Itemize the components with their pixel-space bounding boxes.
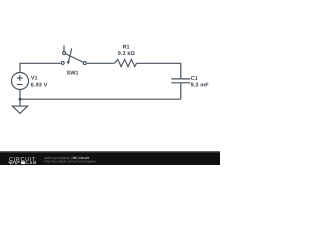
wire switch to resistor xyxy=(87,62,115,64)
switch pin circle top throw xyxy=(63,52,66,55)
svg-text:9.3 mF: 9.3 mF xyxy=(191,83,210,89)
switch SW1 xyxy=(61,45,86,64)
switch lever xyxy=(65,54,83,63)
watermark banner xyxy=(0,153,220,165)
voltage source V1 xyxy=(12,73,29,90)
junction dot xyxy=(19,98,22,101)
switch actuator arrow xyxy=(69,48,72,61)
wire V1 bottom to junction xyxy=(19,89,21,99)
switch top throw stub xyxy=(63,45,65,51)
svg-text:R1: R1 xyxy=(123,45,130,51)
resistor R1 xyxy=(115,59,137,66)
switch pin circle left xyxy=(61,61,64,64)
wire bottom xyxy=(20,98,181,100)
svg-text:SW1: SW1 xyxy=(67,71,79,77)
logo waveform xyxy=(8,162,20,164)
logo LAB block xyxy=(21,161,25,164)
ground xyxy=(12,99,27,113)
svg-text:C1: C1 xyxy=(191,76,198,82)
wire capacitor bottom lead xyxy=(180,83,182,99)
switch pin circle right common xyxy=(83,62,86,65)
svg-text:V1: V1 xyxy=(31,75,38,81)
wire resistor to top-right corner down to capacitor xyxy=(137,63,181,78)
capacitor C1 xyxy=(171,79,190,83)
svg-text:LAB: LAB xyxy=(26,160,37,165)
svg-text:6.93 V: 6.93 V xyxy=(31,82,48,88)
svg-text:http://circuitlab.com/c/7yz7e2: http://circuitlab.com/c/7yz7e2qds4v xyxy=(45,160,97,164)
svg-text:9.3 kΩ: 9.3 kΩ xyxy=(118,51,136,57)
wire top-left corner xyxy=(20,63,61,72)
